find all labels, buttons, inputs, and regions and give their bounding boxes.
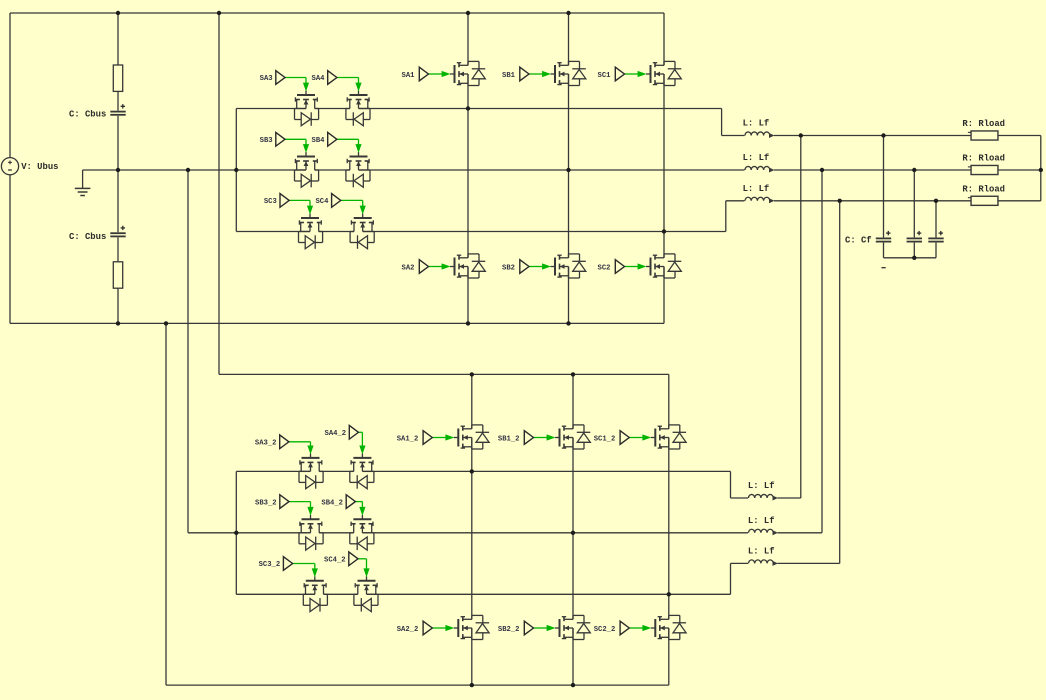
- input port SA2_2: [423, 621, 432, 635]
- transistor SC4_2 (bidirectional-switch MOSFET): [354, 576, 378, 611]
- svg-text:SC1: SC1: [598, 72, 612, 80]
- svg-text:L: Lf: L: Lf: [748, 547, 775, 557]
- svg-text:V: Ubus: V: Ubus: [21, 162, 58, 172]
- svg-text:SA2_2: SA2_2: [397, 626, 419, 634]
- voltage source V: Ubus: [1, 158, 18, 175]
- transistor SB1 (MOSFET with body diode): [551, 61, 586, 85]
- inductor L: Lf phase A2: [748, 494, 778, 500]
- svg-text:L: Lf: L: Lf: [748, 516, 775, 526]
- resistor R: Rload phase C: [968, 196, 998, 205]
- wire filter-cap star bus: [884, 257, 937, 259]
- node junction phase-A tie: [799, 133, 803, 137]
- wire source upper lead: [9, 13, 11, 158]
- green gate wire SB3_2: [289, 502, 314, 516]
- wire DC- bottom rail: [10, 322, 664, 324]
- input port SA4_2: [349, 425, 358, 439]
- transistor SB1_2 (MOSFET with body diode): [555, 425, 590, 449]
- transistor SB4_2 (bidirectional-switch MOSFET): [350, 515, 374, 550]
- green gate wire SC1_2: [629, 434, 651, 440]
- node junction leg A2 / top rail 2: [470, 372, 474, 376]
- input port SB4_2: [346, 495, 355, 509]
- wire phase-C leg inverter 1: [663, 13, 665, 323]
- svg-text:SB3: SB3: [260, 137, 273, 145]
- input port SB4: [328, 132, 337, 146]
- green gate wire SB4: [337, 139, 362, 153]
- transistor SA1 (MOSFET with body diode): [450, 61, 485, 85]
- filter cap minus sign: [882, 267, 886, 269]
- wire DC- feed to inverter 2 and bottom rail 2: [166, 323, 669, 685]
- node junction bidir bus 2 / neutral: [234, 531, 238, 535]
- svg-text:L: Lf: L: Lf: [743, 153, 770, 163]
- node junction phase-C tie: [838, 199, 842, 203]
- wire DC+ feed to inverter 2 and top rail 2: [219, 13, 669, 374]
- green gate wire SA3_2: [289, 442, 314, 455]
- green gate wire SB1: [529, 71, 551, 77]
- green gate wire SA2: [429, 263, 451, 269]
- svg-text:SA3_2: SA3_2: [255, 440, 277, 448]
- green gate wire SA4_2: [359, 432, 366, 454]
- input port SC1_2: [620, 431, 629, 445]
- svg-text:SA4_2: SA4_2: [325, 430, 347, 438]
- transistor SC2_2 (MOSFET with body diode): [651, 615, 686, 639]
- wire phase-A leg inverter 2: [471, 374, 473, 685]
- svg-text:C: Cbus: C: Cbus: [69, 232, 106, 242]
- capacitor C: Cf phase B: [906, 231, 922, 243]
- wire phase-A row after inductor: [774, 135, 1041, 137]
- svg-text:SA1_2: SA1_2: [397, 436, 419, 444]
- resistor bus damping lower: [113, 262, 122, 288]
- green gate wire SB2_2: [534, 625, 556, 631]
- wire filter-cap branch A: [883, 136, 885, 258]
- wire DC+ top rail: [10, 12, 664, 14]
- node junction leg B2 / top rail 2: [571, 372, 575, 376]
- input port SC3_2: [283, 557, 292, 571]
- green gate wire SC4_2: [358, 559, 370, 578]
- green gate wire SB3: [285, 139, 309, 153]
- wire phase-A row inverter 2 after inductor: [778, 497, 801, 499]
- node junction cap branch / bottom rail: [116, 321, 120, 325]
- transistor SA1_2 (MOSFET with body diode): [454, 425, 489, 449]
- svg-text:SB2_2: SB2_2: [498, 626, 520, 634]
- wire phase-A row: [236, 109, 745, 136]
- svg-text:SB4_2: SB4_2: [321, 499, 343, 507]
- green gate wire SA2_2: [432, 625, 454, 631]
- transistor SA2 (MOSFET with body diode): [450, 254, 485, 278]
- green gate wire SA3: [285, 78, 309, 92]
- transistor SC1_2 (MOSFET with body diode): [651, 425, 686, 449]
- wire phase-B row inverter 2 after inductor: [778, 532, 823, 534]
- input port SC4_2: [349, 552, 358, 566]
- transistor SC1 (MOSFET with body diode): [646, 61, 681, 85]
- node junction load bus / row B: [1039, 168, 1043, 172]
- input port SC4: [332, 194, 341, 208]
- svg-text:SA3: SA3: [260, 75, 273, 83]
- node junction phase-A2 node: [470, 469, 474, 473]
- green gate wire SC2: [625, 263, 647, 269]
- input port SA1: [419, 67, 428, 81]
- wire DC-bus capacitor branch: [117, 13, 119, 323]
- svg-text:L: Lf: L: Lf: [743, 119, 770, 129]
- svg-text:SC3_2: SC3_2: [259, 561, 281, 569]
- wire filter-cap branch B: [913, 170, 915, 258]
- green gate wire SA1_2: [432, 434, 454, 440]
- green gate wire SB1_2: [534, 434, 556, 440]
- wire neutral / phase-B row: [83, 169, 745, 171]
- wire phase-A leg inverter 1: [467, 13, 469, 323]
- svg-text:C: Cf: C: Cf: [845, 236, 872, 246]
- green gate wire SC3_2: [293, 564, 318, 578]
- transistor SB3_2 (bidirectional-switch MOSFET): [299, 515, 323, 550]
- node junction leg A / bottom rail: [466, 321, 470, 325]
- transistor SA3_2 (bidirectional-switch MOSFET): [299, 453, 323, 488]
- svg-text:SA2: SA2: [402, 265, 415, 273]
- svg-text:R: Rload: R: Rload: [962, 184, 1005, 194]
- wire phase-C row inverter 2 after inductor: [778, 562, 840, 564]
- wire bidir-switch common bus inverter 2: [235, 471, 237, 594]
- transistor SA3 (bidirectional-switch MOSFET): [295, 91, 319, 126]
- input port SB2_2: [524, 621, 533, 635]
- green gate wire SC2_2: [629, 625, 651, 631]
- node junction cap A tap: [881, 133, 885, 137]
- svg-text:R: Rload: R: Rload: [962, 119, 1005, 129]
- input port SC1: [615, 67, 624, 81]
- node junction bidir bus / neutral: [234, 168, 238, 172]
- node junction phase-B2 node: [571, 531, 575, 535]
- inductor L: Lf phase C: [745, 197, 775, 203]
- wire phase-C leg inverter 2: [668, 374, 670, 685]
- node junction inv2 feed / top rail: [217, 11, 221, 15]
- transistor SB2 (MOSFET with body diode): [551, 254, 586, 278]
- svg-text:SC1_2: SC1_2: [594, 436, 616, 444]
- wire neutral feed to inverter 2: [188, 170, 236, 533]
- transistor SA4_2 (bidirectional-switch MOSFET): [350, 453, 374, 488]
- svg-text:SA1: SA1: [402, 72, 416, 80]
- input port SC2_2: [620, 621, 629, 635]
- green gate wire SC4: [341, 200, 366, 214]
- wire load star-point bus: [1040, 136, 1042, 201]
- ground: [75, 188, 91, 195]
- svg-text:SC3: SC3: [264, 198, 277, 206]
- node junction leg B / top rail: [566, 11, 570, 15]
- node junction phase-B tie: [820, 168, 824, 172]
- green gate wire SB4_2: [355, 502, 365, 516]
- green gate wire SA1: [429, 71, 451, 77]
- input port SB1_2: [524, 431, 533, 445]
- node junction phase-A node: [466, 106, 470, 110]
- svg-text:SA4: SA4: [312, 75, 326, 83]
- transistor SA4 (bidirectional-switch MOSFET): [346, 91, 370, 126]
- green gate wire SC1: [625, 71, 647, 77]
- wire inverter-2 phase-A tie: [800, 136, 802, 499]
- capacitor C: Cbus lower: [110, 226, 126, 238]
- capacitor C: Cf phase A: [875, 231, 891, 243]
- capacitor C: Cf phase C: [928, 231, 944, 243]
- node junction leg B / bottom rail: [566, 321, 570, 325]
- node junction phase-C node: [662, 229, 666, 233]
- svg-text:SB1_2: SB1_2: [498, 436, 520, 444]
- wire phase-A row inverter 2: [236, 471, 748, 498]
- node junction phase-C2 node: [667, 592, 671, 596]
- inductor L: Lf phase A: [745, 132, 775, 138]
- wire phase-B leg inverter 2: [572, 374, 574, 685]
- wire ground stub: [82, 170, 84, 188]
- svg-text:R: Rload: R: Rload: [962, 154, 1005, 164]
- node junction inv2 neutral tap: [186, 168, 190, 172]
- resistor R: Rload phase B: [968, 165, 998, 174]
- wire inverter-2 phase-C tie: [839, 201, 841, 564]
- svg-text:SC2: SC2: [598, 265, 611, 273]
- wire phase-C row after inductor: [774, 200, 1041, 202]
- capacitor C: Cbus upper: [110, 104, 126, 116]
- input port SA1_2: [423, 431, 432, 445]
- svg-text:C: Cbus: C: Cbus: [69, 110, 106, 120]
- transistor SC3_2 (bidirectional-switch MOSFET): [303, 576, 327, 611]
- node junction inv2 DC- tap: [164, 321, 168, 325]
- svg-text:L: Lf: L: Lf: [743, 184, 770, 194]
- wire inverter-2 phase-B tie: [821, 170, 823, 533]
- wire filter-cap branch C: [935, 201, 937, 258]
- transistor SA2_2 (MOSFET with body diode): [454, 615, 489, 639]
- transistor SC3 (bidirectional-switch MOSFET): [299, 214, 323, 249]
- wire phase-B row inverter 2: [236, 532, 748, 534]
- green gate wire SB2: [529, 263, 551, 269]
- node junction cap C tap: [934, 199, 938, 203]
- wire phase-C row inverter 2: [236, 563, 748, 594]
- transistor SB4 (bidirectional-switch MOSFET): [346, 152, 370, 187]
- inductor L: Lf phase C2: [748, 560, 778, 566]
- node junction cap branch / top rail: [116, 11, 120, 15]
- node junction leg B2 / bottom rail 2: [571, 683, 575, 687]
- input port SA3_2: [280, 435, 289, 449]
- svg-text:L: Lf: L: Lf: [748, 481, 775, 491]
- wire bidir-switch common bus inverter 1: [235, 109, 237, 232]
- wire phase-B leg inverter 1: [568, 13, 570, 323]
- transistor SC2 (MOSFET with body diode): [646, 254, 681, 278]
- node junction cap midpoint: [116, 168, 120, 172]
- node junction cap B tap: [912, 168, 916, 172]
- green gate wire SA4: [337, 78, 362, 92]
- svg-text:SB4: SB4: [312, 137, 326, 145]
- input port SA4: [328, 71, 337, 85]
- input port SB3_2: [280, 495, 289, 509]
- node junction filter-cap star point: [912, 256, 916, 260]
- svg-text:SC4_2: SC4_2: [324, 557, 346, 565]
- input port SC3: [280, 194, 289, 208]
- svg-text:SC2_2: SC2_2: [594, 626, 616, 634]
- inductor L: Lf phase B2: [748, 529, 778, 535]
- transistor SB2_2 (MOSFET with body diode): [555, 615, 590, 639]
- svg-text:SC4: SC4: [315, 198, 329, 206]
- input port SB1: [520, 67, 529, 81]
- svg-text:SB3_2: SB3_2: [255, 499, 277, 507]
- resistor bus damping upper: [113, 65, 122, 91]
- wire phase-B row after inductor: [774, 169, 1041, 171]
- node junction phase-B node: [566, 168, 570, 172]
- node junction leg A2 / bottom rail 2: [470, 683, 474, 687]
- resistor R: Rload phase A: [968, 131, 998, 140]
- inductor L: Lf phase B: [745, 166, 775, 172]
- transistor SC4 (bidirectional-switch MOSFET): [350, 214, 374, 249]
- input port SB2: [520, 260, 529, 274]
- node junction leg A / top rail: [466, 11, 470, 15]
- input port SA3: [276, 71, 285, 85]
- green gate wire SC3: [289, 200, 313, 214]
- wire phase-C row: [236, 201, 745, 232]
- svg-text:SB2: SB2: [502, 265, 515, 273]
- input port SC2: [615, 260, 624, 274]
- input port SA2: [419, 260, 428, 274]
- input port SB3: [276, 132, 285, 146]
- wire source lower lead: [9, 175, 11, 324]
- transistor SB3 (bidirectional-switch MOSFET): [295, 152, 319, 187]
- svg-text:SB1: SB1: [502, 72, 516, 80]
